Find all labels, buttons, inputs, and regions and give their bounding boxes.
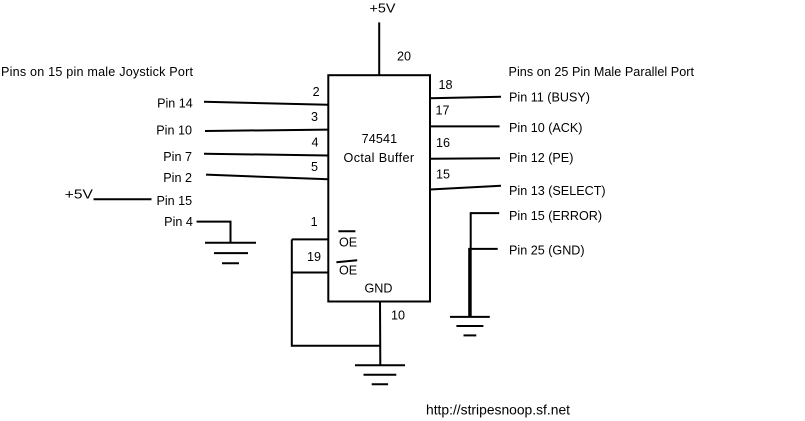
svg-text:Pin 15: Pin 15 [156, 194, 192, 208]
wire IC pin 18 to BUSY [430, 97, 501, 99]
wire Pin 4 to ground [197, 222, 231, 242]
wire IC pin 10 GND down [379, 302, 381, 366]
svg-text:Pin 4: Pin 4 [164, 215, 193, 229]
wire Pin 14 to IC pin 2 [204, 102, 328, 105]
svg-text:19: 19 [307, 250, 321, 264]
svg-text:GND: GND [365, 282, 393, 296]
svg-text:OE: OE [339, 236, 357, 250]
svg-text:+5V: +5V [65, 187, 94, 201]
svg-text:1: 1 [311, 215, 318, 229]
svg-text:Pin 14: Pin 14 [157, 97, 193, 111]
svg-text:18: 18 [439, 78, 453, 92]
svg-text:Pin 2: Pin 2 [163, 171, 192, 185]
wire IC pin 19 OE [292, 272, 328, 274]
svg-text:74541: 74541 [362, 132, 398, 146]
svg-text:Pin 15 (ERROR): Pin 15 (ERROR) [509, 209, 602, 223]
svg-text:Pin 12 (PE): Pin 12 (PE) [509, 151, 573, 165]
svg-text:Pin 25 (GND): Pin 25 (GND) [509, 244, 585, 258]
op IC U1 74541 box [328, 75, 430, 301]
ground (IC pin 10) [355, 365, 405, 384]
svg-text:17: 17 [436, 103, 450, 117]
svg-text:Pin 7: Pin 7 [163, 150, 192, 164]
wire Pin 7 to IC pin 4 [204, 154, 328, 156]
wire Pin 2 to IC pin 5 [206, 175, 328, 180]
svg-text:http://stripesnoop.sf.net: http://stripesnoop.sf.net [426, 402, 570, 417]
ground (parallel port) [450, 317, 490, 336]
svg-text:10: 10 [391, 309, 405, 323]
svg-text:16: 16 [436, 136, 450, 150]
pin label OE (pin 19) with overline [336, 260, 357, 277]
svg-text:Pin 10: Pin 10 [156, 124, 192, 138]
pin label OE (pin 1) with overline [338, 231, 357, 249]
wire IC pin 1 OE [292, 238, 328, 240]
svg-text:3: 3 [311, 110, 318, 124]
wire IC pin 17 to ACK [430, 125, 500, 127]
svg-text:Pin 10 (ACK): Pin 10 (ACK) [509, 121, 583, 135]
wire GND stub to ground rail [469, 249, 498, 317]
svg-text:Pins on 25 Pin Male Parallel P: Pins on 25 Pin Male Parallel Port [509, 65, 695, 79]
ground (joystick Pin 4) [205, 243, 256, 263]
wire Pin 10 to IC pin 3 [205, 130, 328, 131]
svg-text:15: 15 [436, 168, 450, 182]
svg-text:OE: OE [339, 264, 357, 278]
wire IC pin 16 to PE [430, 157, 500, 160]
wire ERROR to ground rail [471, 213, 500, 316]
svg-text:2: 2 [313, 85, 320, 99]
wire OE pins down to ground rail [292, 239, 380, 345]
svg-text:5: 5 [311, 160, 318, 174]
svg-text:Pins on 15 pin male Joystick P: Pins on 15 pin male Joystick Port [1, 65, 194, 79]
wire +5V to Pin 15 [94, 198, 152, 200]
wire +5V to pin 20 [378, 22, 380, 75]
svg-text:4: 4 [311, 136, 318, 150]
svg-text:Octal Buffer: Octal Buffer [344, 151, 415, 165]
svg-text:20: 20 [397, 50, 411, 64]
svg-text:+5V: +5V [370, 2, 397, 16]
svg-text:Pin 13 (SELECT): Pin 13 (SELECT) [509, 184, 606, 198]
wire IC pin 15 to SELECT [430, 186, 501, 190]
svg-text:Pin 11 (BUSY): Pin 11 (BUSY) [509, 90, 590, 104]
